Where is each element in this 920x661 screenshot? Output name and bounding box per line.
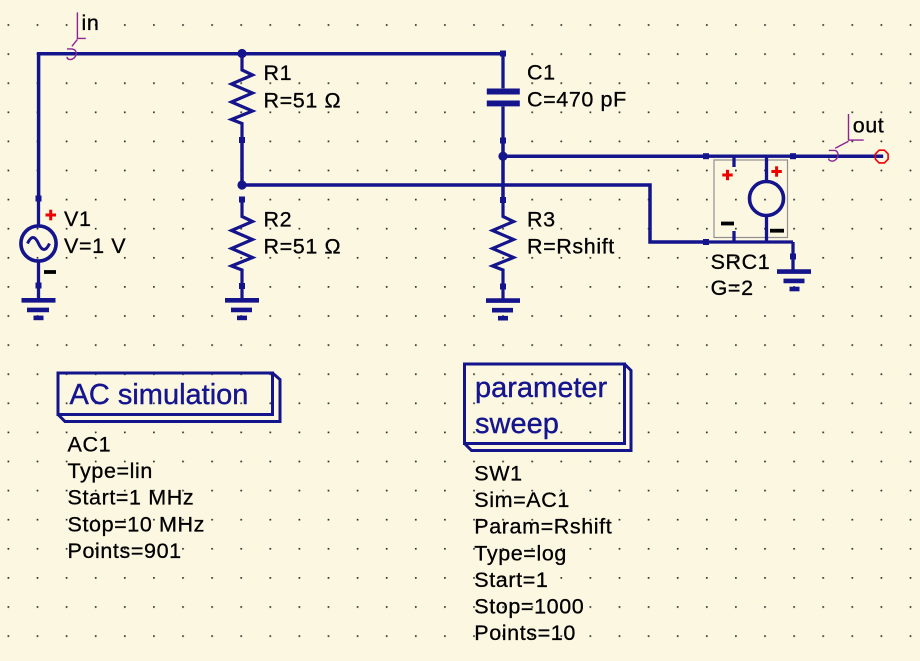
svg-text:G=2: G=2 (711, 276, 754, 300)
svg-text:C=470 pF: C=470 pF (527, 88, 627, 112)
svg-text:in: in (82, 11, 100, 35)
svg-text:Start=1: Start=1 (474, 568, 548, 592)
svg-text:Start=1 MHz: Start=1 MHz (68, 486, 195, 510)
svg-text:Points=10: Points=10 (474, 621, 576, 645)
svg-text:Type=log: Type=log (474, 541, 567, 565)
svg-text:R2: R2 (264, 208, 293, 232)
svg-text:Stop=1000: Stop=1000 (474, 595, 584, 619)
svg-text:sweep: sweep (475, 408, 559, 440)
svg-text:SW1: SW1 (474, 462, 522, 486)
svg-text:AC simulation: AC simulation (70, 379, 249, 411)
svg-text:Param=Rshift: Param=Rshift (474, 515, 612, 539)
svg-text:R1: R1 (264, 61, 293, 85)
svg-text:AC1: AC1 (68, 433, 112, 457)
svg-text:R3: R3 (527, 208, 556, 232)
svg-text:C1: C1 (527, 61, 556, 85)
svg-text:Points=901: Points=901 (68, 539, 182, 563)
svg-text:R=Rshift: R=Rshift (527, 235, 615, 259)
svg-text:Type=lin: Type=lin (68, 459, 153, 483)
svg-text:V=1 V: V=1 V (64, 234, 126, 258)
svg-text:parameter: parameter (475, 372, 608, 404)
svg-text:Sim=AC1: Sim=AC1 (474, 488, 570, 512)
svg-text:R=51 Ω: R=51 Ω (264, 235, 342, 259)
svg-text:out: out (853, 114, 885, 138)
svg-text:Stop=10 MHz: Stop=10 MHz (68, 512, 205, 536)
svg-text:SRC1: SRC1 (711, 250, 771, 274)
svg-text:V1: V1 (64, 207, 92, 231)
svg-text:R=51 Ω: R=51 Ω (264, 88, 342, 112)
